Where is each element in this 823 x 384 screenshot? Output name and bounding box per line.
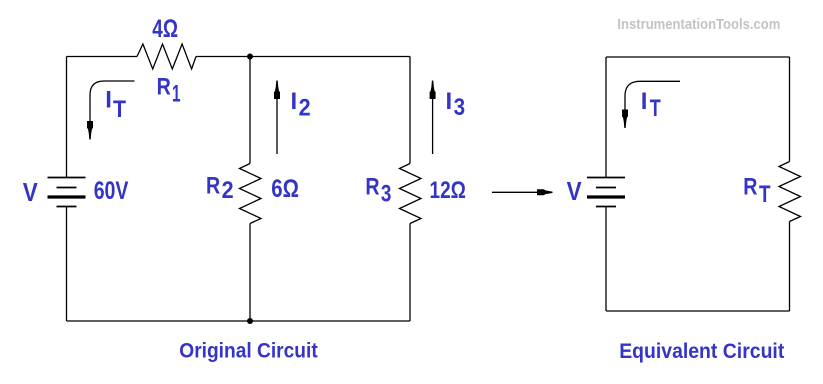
- svg-text:V: V: [567, 176, 583, 206]
- svg-text:V: V: [23, 177, 39, 207]
- wire: R2 branch upper: [249, 57, 251, 164]
- wire: left circuit top-right segment to node A: [196, 56, 410, 58]
- resistor R1: [137, 44, 196, 69]
- svg-text:I: I: [446, 88, 453, 115]
- svg-text:4Ω: 4Ω: [152, 15, 178, 43]
- resistor R2: [240, 164, 262, 224]
- svg-text:T: T: [759, 181, 771, 208]
- current arrow IT left circuit: [87, 81, 135, 140]
- svg-text:12Ω: 12Ω: [430, 177, 466, 204]
- svg-text:R: R: [365, 174, 379, 201]
- node B junction dot bottom: [247, 318, 253, 324]
- wire: left circuit top-left segment: [67, 56, 138, 58]
- current arrow I2: [274, 81, 280, 155]
- wire: right circuit top: [606, 56, 790, 58]
- wire: right circuit bottom: [606, 310, 790, 312]
- battery V source right circuit: [587, 178, 625, 207]
- svg-text:1: 1: [172, 81, 181, 108]
- current arrow I3: [430, 81, 436, 155]
- wire: left circuit bottom: [67, 320, 411, 322]
- svg-text:Equivalent Circuit: Equivalent Circuit: [619, 340, 784, 363]
- svg-text:T: T: [650, 95, 661, 122]
- resistor R3: [400, 164, 422, 224]
- wire: right circuit right vertical lower: [789, 222, 791, 312]
- arrow between circuits: [492, 189, 553, 195]
- current arrow IT right circuit: [622, 81, 680, 128]
- svg-text:2: 2: [222, 177, 234, 204]
- wire: right circuit left vertical upper: [605, 57, 607, 178]
- wire: R3 branch upper: [409, 57, 411, 164]
- wire: R3 branch lower: [409, 224, 411, 322]
- svg-text:R: R: [743, 173, 757, 200]
- svg-text:3: 3: [381, 180, 392, 207]
- wire: left circuit left vertical lower: [66, 207, 68, 322]
- svg-text:I: I: [105, 86, 112, 113]
- wire: right circuit left vertical lower: [605, 207, 607, 312]
- battery V source left circuit: [48, 178, 86, 207]
- node A junction dot top: [247, 54, 253, 60]
- wire: left circuit left vertical upper: [66, 57, 68, 178]
- svg-text:6Ω: 6Ω: [271, 175, 299, 203]
- svg-text:Original Circuit: Original Circuit: [179, 340, 317, 363]
- svg-text:2: 2: [299, 95, 311, 122]
- svg-text:R: R: [206, 173, 220, 200]
- svg-text:I: I: [641, 88, 648, 115]
- svg-text:T: T: [113, 96, 126, 123]
- wire: R2 branch lower: [249, 224, 251, 322]
- svg-text:InstrumentationTools.com: InstrumentationTools.com: [617, 17, 780, 33]
- resistor RT: [779, 162, 801, 222]
- svg-text:I: I: [291, 88, 298, 115]
- svg-text:3: 3: [454, 94, 466, 121]
- svg-text:R: R: [157, 74, 171, 101]
- wire: right circuit right vertical upper: [789, 57, 791, 162]
- svg-text:60V: 60V: [94, 177, 129, 205]
